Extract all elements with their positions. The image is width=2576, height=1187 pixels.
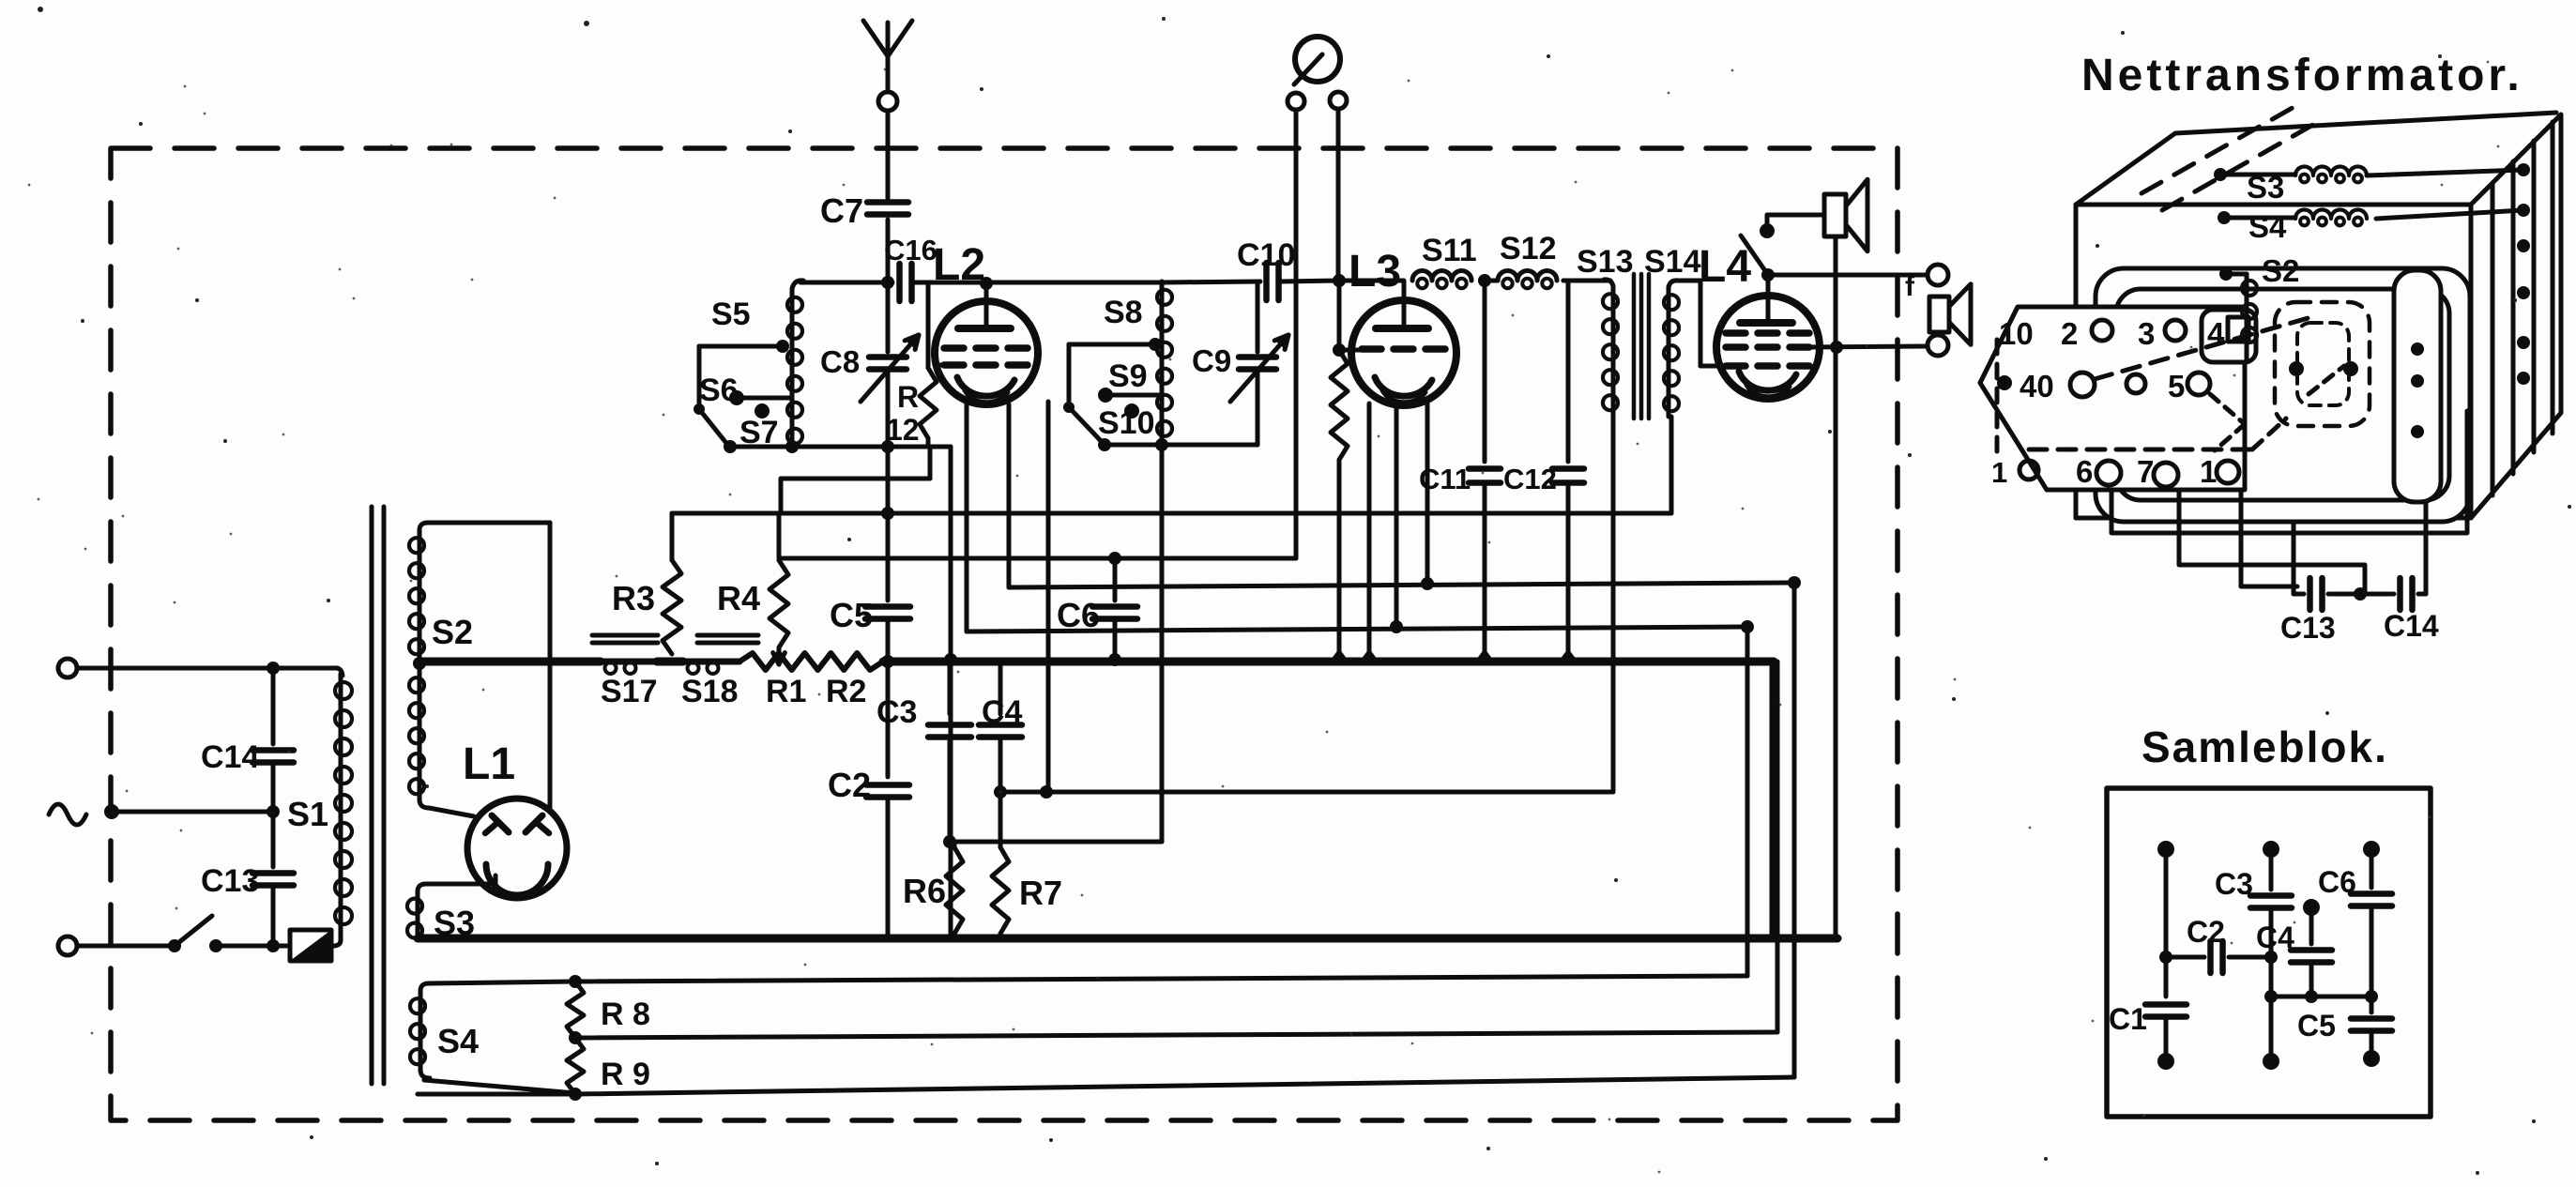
- svg-text:1: 1: [1991, 456, 2007, 489]
- svg-text:C13: C13: [2280, 611, 2336, 645]
- svg-text:C13: C13: [201, 863, 259, 899]
- svg-text:3: 3: [2138, 316, 2155, 351]
- svg-text:C8: C8: [820, 344, 860, 379]
- svg-text:C5: C5: [830, 596, 873, 634]
- svg-text:C12: C12: [1503, 463, 1557, 495]
- svg-text:L2: L2: [933, 240, 985, 290]
- svg-text:R3: R3: [612, 579, 655, 617]
- svg-text:C7: C7: [820, 191, 863, 230]
- svg-text:S12: S12: [1500, 231, 1557, 266]
- svg-text:C16: C16: [884, 234, 937, 266]
- svg-text:12: 12: [886, 413, 920, 447]
- svg-text:C2: C2: [828, 766, 871, 804]
- svg-text:L1: L1: [463, 739, 515, 789]
- svg-text:C1: C1: [2109, 1002, 2147, 1036]
- svg-text:f: f: [1905, 271, 1915, 302]
- svg-text:6: 6: [2076, 454, 2093, 489]
- svg-text:L4: L4: [1699, 242, 1751, 292]
- svg-text:S11: S11: [1422, 233, 1477, 268]
- svg-text:S4: S4: [2248, 209, 2287, 244]
- svg-text:S2: S2: [432, 613, 473, 651]
- svg-text:7: 7: [2137, 454, 2154, 489]
- svg-text:C4: C4: [2256, 921, 2294, 954]
- svg-text:C5: C5: [2297, 1009, 2336, 1042]
- svg-text:C9: C9: [1192, 343, 1231, 378]
- svg-text:S10: S10: [1098, 405, 1155, 441]
- svg-text:C4: C4: [982, 694, 1023, 730]
- svg-text:S14: S14: [1644, 244, 1701, 280]
- svg-text:S6: S6: [699, 373, 739, 408]
- svg-text:C2: C2: [2187, 915, 2225, 949]
- svg-text:S18: S18: [681, 674, 739, 709]
- svg-text:S13: S13: [1577, 244, 1634, 280]
- svg-text:R: R: [897, 380, 919, 414]
- svg-text:C3: C3: [876, 694, 917, 730]
- svg-text:C3: C3: [2215, 867, 2253, 901]
- svg-text:S1: S1: [287, 795, 328, 833]
- svg-text:S3: S3: [434, 904, 475, 942]
- svg-text:Nettransformator.: Nettransformator.: [2081, 51, 2523, 100]
- svg-text:R 8: R 8: [601, 997, 650, 1032]
- svg-text:R4: R4: [717, 579, 760, 617]
- svg-text:C14: C14: [201, 739, 259, 775]
- svg-text:2: 2: [2061, 316, 2078, 351]
- svg-text:S8: S8: [1104, 295, 1143, 330]
- svg-text:R7: R7: [1019, 874, 1062, 912]
- svg-text:S9: S9: [1108, 358, 1148, 394]
- svg-text:R1: R1: [766, 674, 806, 709]
- svg-text:S5: S5: [711, 297, 751, 332]
- svg-text:C11: C11: [1419, 463, 1471, 495]
- svg-text:5: 5: [2168, 369, 2185, 403]
- svg-text:C14: C14: [2384, 609, 2439, 643]
- svg-text:40: 40: [2020, 369, 2054, 403]
- svg-text:R 9: R 9: [601, 1057, 650, 1092]
- svg-text:S17: S17: [601, 674, 658, 709]
- svg-text:10: 10: [1999, 316, 2034, 351]
- svg-text:S2: S2: [2262, 253, 2299, 288]
- svg-text:R6: R6: [903, 872, 946, 910]
- svg-text:C6: C6: [1057, 596, 1100, 634]
- svg-text:C10: C10: [1237, 237, 1295, 273]
- svg-text:R2: R2: [826, 674, 866, 709]
- svg-text:S4: S4: [437, 1022, 479, 1060]
- svg-text:C6: C6: [2318, 865, 2356, 899]
- svg-text:L3: L3: [1349, 247, 1401, 297]
- svg-text:Samleblok.: Samleblok.: [2142, 723, 2388, 771]
